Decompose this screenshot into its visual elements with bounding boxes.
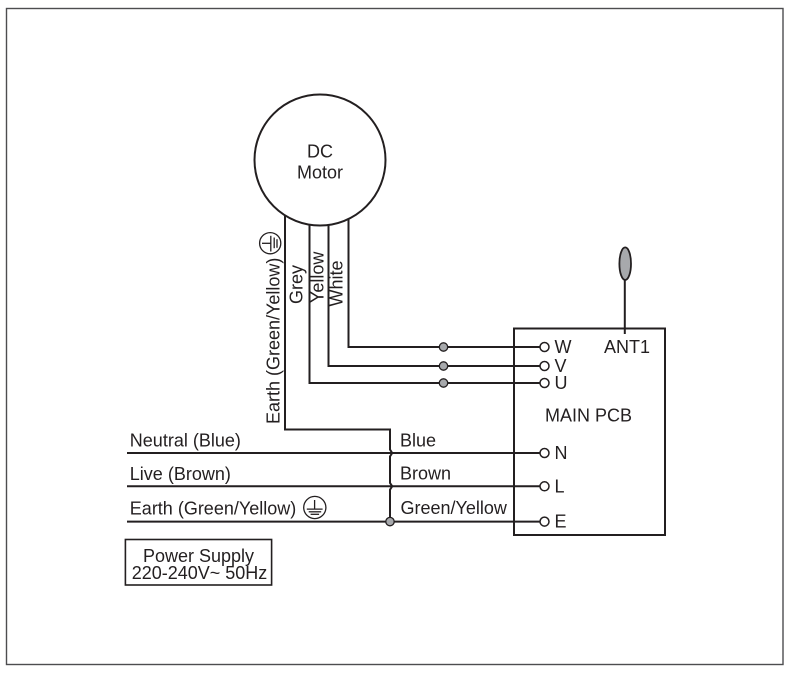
svg-text:Earth (Green/Yellow): Earth (Green/Yellow)	[130, 499, 296, 519]
svg-text:ANT1: ANT1	[604, 337, 650, 357]
DC motor M	[255, 95, 386, 226]
terminal U	[540, 373, 568, 393]
svg-text:DC: DC	[307, 142, 333, 162]
svg-text:Live (Brown): Live (Brown)	[130, 464, 231, 484]
svg-text:E: E	[555, 512, 567, 532]
svg-text:Blue: Blue	[400, 430, 436, 450]
terminal E	[540, 512, 567, 532]
antenna ANT1	[604, 247, 650, 357]
junction dot earth connection	[386, 517, 394, 525]
earth symbol at motor (rotated)	[260, 233, 281, 254]
svg-text:Neutral (Blue): Neutral (Blue)	[130, 430, 241, 450]
svg-text:MAIN PCB: MAIN PCB	[545, 406, 632, 426]
wire: motor earth green/yellow down and across to supply earth	[285, 200, 392, 522]
svg-text:W: W	[555, 337, 572, 357]
power supply source PS1	[125, 540, 271, 586]
earth symbol at supply line	[304, 496, 326, 518]
svg-text:White: White	[327, 260, 347, 306]
svg-text:L: L	[555, 476, 565, 496]
MAIN PCB box U1	[514, 329, 665, 536]
svg-text:Motor: Motor	[297, 163, 343, 183]
svg-text:Green/Yellow: Green/Yellow	[401, 498, 508, 518]
terminal W	[540, 337, 572, 357]
svg-text:N: N	[555, 443, 568, 463]
wire: earth supply line to terminal E	[127, 521, 540, 523]
wire: grey phase from motor to terminal U	[310, 200, 540, 383]
terminal L	[540, 476, 565, 496]
junction dot on W wire	[439, 343, 447, 351]
junction dot on U wire	[439, 379, 447, 387]
wire: live supply line to terminal L	[127, 485, 540, 487]
wire: white phase from motor to terminal W	[349, 200, 540, 347]
terminal N	[540, 443, 568, 463]
wire: neutral supply line to terminal N	[127, 452, 540, 454]
terminal V	[540, 356, 567, 376]
svg-text:Brown: Brown	[400, 464, 451, 484]
svg-text:U: U	[555, 373, 568, 393]
svg-text:220-240V~ 50Hz: 220-240V~ 50Hz	[132, 563, 268, 583]
wire: yellow phase from motor to terminal V	[329, 200, 540, 366]
svg-text:Yellow: Yellow	[307, 251, 327, 303]
junction dot on V wire	[439, 362, 447, 370]
svg-text:Earth (Green/Yellow): Earth (Green/Yellow)	[264, 258, 284, 424]
svg-text:Grey: Grey	[287, 265, 307, 304]
